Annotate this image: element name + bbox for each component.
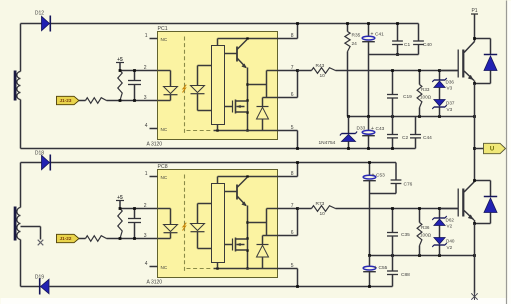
wire pin2 line (bottom) — [120, 208, 158, 210]
resistor R36 — [417, 207, 432, 255]
amplifier block (PC8) — [212, 184, 225, 263]
transistor NPN (PC1) — [225, 40, 248, 69]
svg-text:C55: C55 — [379, 265, 388, 271]
wire left vertical upper (bottom) — [20, 163, 22, 208]
svg-text:PC8: PC8 — [158, 164, 168, 170]
svg-text:+: + — [372, 173, 375, 179]
wire top VCC rail — [51, 23, 419, 25]
wire left vertical lower — [20, 100, 22, 149]
emitter vertical (PC8) — [246, 206, 248, 270]
transistor IGBT Q1 — [440, 39, 475, 84]
wire bottom VEE rail — [50, 286, 393, 288]
svg-text:100Ω: 100Ω — [420, 95, 432, 100]
diode D18 — [35, 151, 50, 171]
wire flag to resistor (bottom) — [79, 238, 86, 240]
internal diode (PC8) — [257, 236, 269, 269]
svg-text:C35: C35 — [401, 232, 410, 238]
frame border right — [506, 1, 508, 304]
wire winding tap stub — [21, 227, 41, 240]
internal diode (PC1) — [257, 98, 269, 131]
svg-text:1: 1 — [145, 171, 148, 177]
svg-text:C43: C43 — [376, 126, 385, 132]
diode antiparallel D-Q1 — [473, 37, 497, 85]
wire zener middle (bottom) — [439, 226, 441, 238]
emitter vertical (PC1) — [246, 68, 248, 132]
svg-text:D36: D36 — [446, 80, 455, 85]
pin 4 label (PC8) — [145, 261, 168, 270]
svg-text:4: 4 — [145, 123, 148, 129]
wire top VCC rail left segment — [21, 23, 42, 25]
diode D12 — [35, 11, 50, 32]
svg-text:J1-23: J1-23 — [60, 98, 72, 103]
svg-text:NC: NC — [161, 265, 168, 270]
isolation barrier dashed line (PC8) — [185, 175, 212, 273]
transformer winding T2 — [17, 208, 21, 240]
svg-text:R33: R33 — [421, 87, 430, 92]
transistor MOSFET (PC8) — [225, 238, 248, 252]
LED input (PC1) — [158, 71, 178, 101]
op-amp U-PC8 box — [147, 164, 278, 286]
wire bottom VCC rail left segment — [21, 162, 42, 164]
diode D33 zener 1N4754 — [319, 117, 366, 149]
svg-text:R43: R43 — [316, 63, 325, 69]
capacitor input (top) — [128, 71, 141, 101]
svg-text:C1: C1 — [404, 42, 410, 48]
wire pin2 line (top) — [120, 70, 158, 72]
wire pin7-6 tie (bottom) — [278, 207, 299, 235]
svg-text:2: 2 — [144, 203, 147, 209]
wire pin7-6 tie (top) — [278, 69, 299, 97]
wire bottom VCC rail — [51, 162, 396, 164]
diode D62 zener — [432, 207, 454, 228]
port P1 — [471, 8, 478, 39]
node U flag — [473, 143, 505, 153]
capacitor C43 — [362, 117, 384, 149]
svg-text:D40: D40 — [446, 239, 455, 244]
resistor R33 — [417, 69, 432, 116]
diode antiparallel D-Q2 — [473, 179, 497, 225]
svg-text:A 3120: A 3120 — [147, 280, 163, 286]
capacitor C44 — [410, 117, 432, 149]
wire left vertical lower (bottom) — [20, 240, 22, 287]
svg-text:D12: D12 — [35, 11, 44, 17]
transistor MOSFET (PC1) — [225, 100, 248, 114]
internal VCC feed (PC8) — [218, 175, 278, 183]
svg-text:C40: C40 — [423, 42, 432, 48]
svg-text:+: + — [371, 32, 374, 38]
capacitor C2 — [387, 117, 408, 149]
LED input (PC8) — [158, 209, 178, 239]
wire phase leg upper — [474, 84, 476, 181]
photodiode (PC1) — [191, 66, 212, 111]
svg-text:NC: NC — [161, 175, 168, 180]
svg-text:V3: V3 — [447, 107, 453, 112]
svg-text:R36: R36 — [421, 225, 430, 230]
pin 4 label (PC1) — [145, 123, 168, 132]
wire phase leg lower — [474, 224, 476, 294]
svg-text:R73: R73 — [316, 201, 325, 207]
junction dots input (top) — [119, 69, 136, 102]
node J1-22 flag — [57, 234, 80, 242]
pin 1 label (PC1) — [145, 33, 168, 42]
internal VEE line (PC1) — [214, 125, 278, 132]
svg-text:V3: V3 — [447, 86, 453, 91]
resistor R35 — [345, 22, 361, 116]
output bracket pins 7-6 (PC8) — [248, 209, 278, 236]
resistor R43 — [298, 63, 336, 79]
svg-text:D18: D18 — [35, 151, 44, 157]
capacitor C76 — [391, 163, 413, 194]
wire bottom VEE rail left — [21, 286, 40, 288]
node output stub marker — [471, 292, 477, 301]
svg-text:24: 24 — [352, 41, 358, 47]
svg-text:D37: D37 — [446, 101, 455, 106]
transistor IGBT Q2 — [440, 181, 475, 224]
pin 1 label (PC8) — [145, 171, 168, 180]
resistor bleed (bottom) — [118, 209, 122, 239]
svg-text:3: 3 — [144, 233, 147, 239]
diode D40 zener — [432, 238, 455, 256]
svg-text:PC1: PC1 — [158, 26, 168, 32]
wire VE rail (bottom) — [368, 254, 476, 257]
white right margin — [508, 1, 511, 304]
svg-text:10: 10 — [320, 73, 326, 79]
resistor R73 — [298, 201, 336, 217]
svg-text:NC: NC — [161, 127, 168, 132]
svg-text:C19: C19 — [403, 94, 412, 100]
svg-text:A 3120: A 3120 — [147, 142, 163, 148]
svg-text:U: U — [490, 147, 494, 153]
capacitor C88 — [387, 256, 410, 287]
transformer winding T1 — [17, 72, 21, 100]
capacitor C55 — [363, 256, 387, 287]
power +5 flag (bottom) — [116, 195, 124, 209]
wire cap ladder rail (top) — [369, 54, 419, 56]
node no-connect cross — [38, 240, 44, 246]
wire flag to resistor — [79, 100, 86, 102]
wire C53 bottom to VE rail — [369, 194, 371, 256]
svg-text:+: + — [374, 265, 377, 271]
wire pin8 to VCC (top) — [278, 22, 299, 38]
output bracket pins 7-6 (PC1) — [248, 71, 278, 98]
svg-text:R35: R35 — [352, 33, 361, 39]
svg-text:1: 1 — [145, 33, 148, 39]
transformer winding T2 core — [14, 207, 17, 241]
diode D36 zener — [432, 69, 454, 90]
transistor NPN (PC8) — [225, 178, 248, 207]
capacitor input (bottom) — [128, 209, 141, 239]
wire resistor to pin3 (bottom) — [107, 238, 158, 240]
capacitor C19 — [387, 69, 412, 116]
wire gate line (top) — [336, 70, 458, 72]
svg-text:C53: C53 — [376, 173, 385, 179]
diode D37 zener — [432, 100, 455, 117]
junction dots VEE rail (bottom) — [368, 285, 371, 288]
svg-text:C2: C2 — [402, 135, 408, 141]
wire pin5 to VEE (top) — [278, 131, 299, 150]
wire pin8 to VCC (bottom) — [278, 161, 299, 176]
svg-text:10: 10 — [320, 211, 326, 217]
svg-text:1N4754: 1N4754 — [319, 140, 336, 146]
node J1-23 flag — [57, 96, 80, 104]
diode D19 — [35, 275, 49, 295]
transformer winding T1 core — [14, 71, 17, 101]
light arrow (PC8) — [183, 223, 187, 231]
resistor series input (top) — [86, 98, 107, 104]
white bottom margin — [1, 298, 511, 304]
junction dots VEE rail (top) — [347, 147, 394, 150]
capacitor C35 — [387, 207, 410, 255]
svg-text:J1-22: J1-22 — [60, 236, 72, 241]
svg-text:4: 4 — [145, 261, 148, 267]
wire C41 bottom to VE rail — [368, 55, 370, 117]
wire top VEE rail — [21, 148, 416, 150]
svg-text:D62: D62 — [446, 218, 455, 223]
op-amp U-PC1 box — [147, 26, 278, 148]
svg-text:C76: C76 — [404, 182, 413, 188]
capacitor C40 — [413, 24, 432, 55]
svg-text:C88: C88 — [401, 272, 410, 278]
svg-text:V2: V2 — [447, 245, 453, 250]
svg-text:C41: C41 — [375, 32, 384, 38]
resistor bleed (top) — [118, 71, 122, 101]
svg-text:100Ω: 100Ω — [420, 233, 432, 238]
svg-text:C44: C44 — [423, 135, 432, 141]
svg-text:3: 3 — [144, 95, 147, 101]
wire resistor to pin3 — [107, 100, 158, 102]
wire left vertical upper — [20, 24, 22, 72]
svg-text:+: + — [371, 126, 374, 132]
svg-text:V2: V2 — [447, 224, 453, 229]
wire cap ladder rail (bottom) — [370, 193, 397, 195]
photodiode (PC8) — [191, 204, 212, 249]
light arrow (PC1) — [183, 85, 187, 93]
svg-text:NC: NC — [161, 37, 168, 42]
resistor series input (bottom) — [86, 236, 107, 242]
wire zener middle (top) — [439, 88, 441, 100]
internal VEE line (PC8) — [214, 263, 278, 270]
svg-text:2: 2 — [144, 65, 147, 71]
junction dots input (bottom) — [119, 207, 136, 240]
internal VCC feed (PC1) — [218, 37, 278, 45]
wire gate line (bottom) — [336, 208, 458, 210]
wire VE rail (top) — [347, 115, 476, 118]
isolation barrier dashed line (PC1) — [185, 37, 212, 135]
capacitor C53 — [363, 161, 385, 193]
svg-text:P1: P1 — [471, 8, 477, 14]
wire pin5 to VEE (bottom) — [278, 269, 299, 288]
amplifier block (PC1) — [212, 46, 225, 125]
capacitor C41 — [362, 22, 384, 54]
capacitor C1 — [392, 22, 410, 56]
svg-text:D19: D19 — [35, 275, 44, 281]
power +5 flag (top) — [116, 57, 124, 71]
